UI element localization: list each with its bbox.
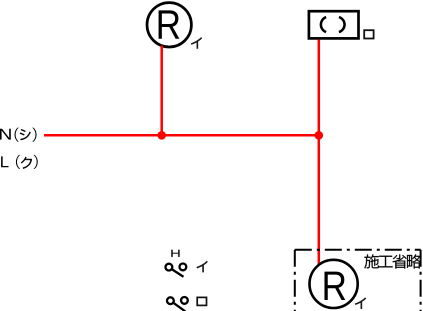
- rosette left paren mark: [321, 17, 326, 32]
- wire: vertical line through rosette down to omitted lamp: [318, 40, 321, 266]
- switch S2 blade: [173, 303, 186, 311]
- rosette right paren mark: [339, 17, 345, 32]
- switch S2 label square: [197, 297, 206, 305]
- switch S1 right terminal: [180, 264, 187, 271]
- switch S1 blade: [172, 269, 184, 277]
- node label L (ク): [1, 155, 38, 169]
- switch S1 label H: [171, 250, 179, 257]
- switch S1 label イ: [197, 261, 208, 272]
- switch S2 (□) left terminal: [167, 297, 174, 304]
- junction node B: [315, 131, 324, 140]
- construction-omitted boundary box (dash-dot): [295, 250, 421, 311]
- rosette label square: [364, 30, 373, 38]
- switch S2 right terminal: [181, 297, 188, 304]
- wire: horizontal N line: [44, 134, 319, 137]
- lamp R1 letter R: [159, 10, 180, 38]
- lamp receptacle R1 (イ) circle: [147, 3, 191, 47]
- junction node A: [157, 131, 166, 140]
- lamp R2 letter R: [324, 272, 345, 300]
- node label N (シ): [0, 128, 37, 142]
- lamp R2 label イ: [355, 298, 366, 309]
- switch S1 (H pilot, イ) left terminal: [166, 264, 173, 271]
- ceiling rosette box (square type): [309, 11, 359, 38]
- lamp receptacle R2 (イ, omitted) circle: [310, 260, 358, 308]
- lamp R1 label イ: [191, 38, 202, 49]
- label 施工省略: [364, 254, 421, 268]
- wire: vertical drop to lamp R1: [160, 46, 163, 136]
